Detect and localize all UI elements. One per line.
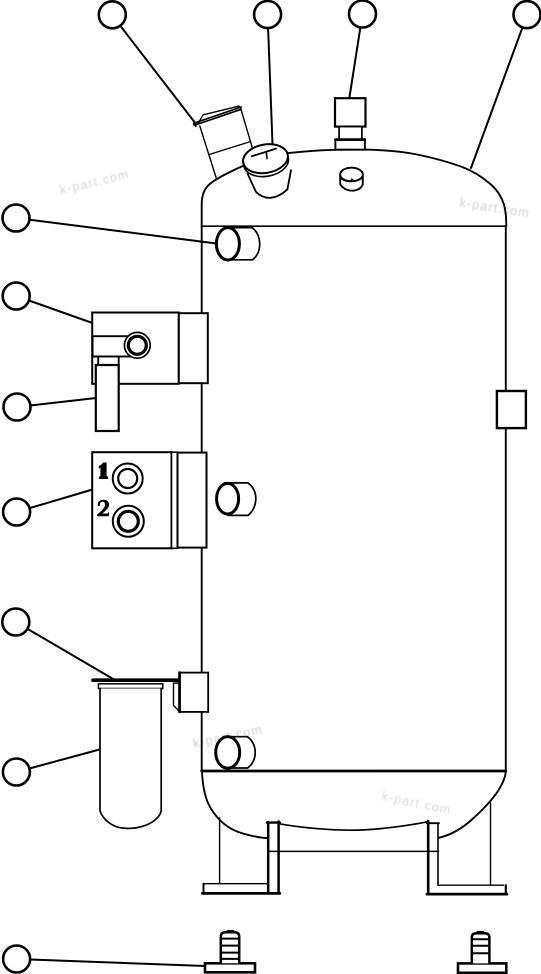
balloon 1: [99, 1, 126, 28]
tank dome outline: [202, 150, 507, 226]
port 2 inner circle: [118, 511, 138, 531]
balloon 6: [3, 283, 30, 310]
valve block 1 ring inner bolt: [128, 336, 146, 354]
right foot bottom bold: [427, 893, 507, 896]
left foot bolt cap bump: [228, 930, 234, 932]
right foot bolt threads: [472, 938, 490, 940]
right foot top: [438, 884, 504, 886]
port 2 outer circle: [113, 506, 144, 537]
right side port box: [497, 391, 526, 428]
valve block 1 main box: [92, 313, 179, 384]
right leg channel left bold: [427, 821, 430, 894]
gauge needle pivot tick: [265, 153, 268, 159]
tank left edge: [201, 226, 203, 771]
balloon 2: [254, 1, 281, 28]
cross bar between legs: [268, 850, 438, 852]
leader 8: [17, 490, 93, 513]
balloon 4: [514, 1, 541, 28]
balloon 7: [4, 394, 31, 421]
gauge needle: [252, 149, 276, 157]
left leg channel cap: [267, 821, 280, 823]
pressure gauge body cylinder: [248, 170, 291, 198]
balloon 3: [349, 1, 376, 28]
valve block 1 mount plate: [179, 313, 208, 383]
valve block 1 collar: [98, 357, 119, 366]
right leg channel cap: [427, 822, 439, 824]
air filter rim lower line: [195, 109, 240, 125]
bottom dome right silhouette: [439, 772, 506, 838]
leader 5: [16, 218, 217, 244]
right foot right edge: [505, 885, 507, 894]
valve block 1 drain pipe: [96, 365, 119, 431]
air filter tilted body left edge: [200, 126, 217, 179]
pressure switch top box: [335, 98, 366, 126]
balloon 11: [3, 946, 30, 973]
bottom dome left silhouette: [202, 772, 268, 838]
pressure switch base slab: [335, 139, 365, 149]
leader 6: [16, 296, 92, 323]
left leg channel right bold: [277, 822, 280, 894]
left foot bolt base: [205, 963, 255, 972]
label 1: [99, 463, 108, 480]
balloon 8: [3, 499, 30, 526]
valve block 1 elbow pipe: [93, 336, 132, 356]
left foot top: [204, 883, 267, 885]
valve block 2 mount plate: [178, 453, 207, 548]
leader 10: [16, 750, 99, 773]
leader 4: [471, 15, 527, 168]
air filter mid band: [209, 142, 251, 155]
pressure gauge face: [241, 141, 290, 177]
separator filter mounting bar: [93, 678, 179, 682]
bracket tab: [174, 683, 180, 711]
top plug cylinder sides: [340, 175, 363, 191]
bottom seam: [202, 770, 506, 773]
leader 11: [17, 959, 206, 966]
right foot bolt cap bump: [478, 931, 484, 933]
top port nipple cylinder: [228, 228, 260, 260]
left foot bottom bold: [202, 892, 279, 895]
right leg channel right thin: [437, 823, 439, 885]
valve block 1 ring outer: [124, 332, 150, 358]
label 2: [97, 500, 109, 516]
leader 1: [112, 15, 196, 124]
port 1 inner circle: [118, 469, 137, 488]
left foot left edge: [203, 884, 205, 894]
pressure switch base slab bold top: [335, 138, 365, 141]
leader 9: [16, 622, 114, 680]
top port front ellipse: [216, 228, 239, 260]
tank top seam: [202, 225, 507, 227]
tank right edge: [505, 226, 507, 771]
top plug top ellipse: [340, 168, 363, 182]
svg-text:k-part.com: k-part.com: [380, 789, 452, 817]
balloon 5: [3, 205, 30, 232]
svg-text:k-part.com: k-part.com: [58, 167, 130, 197]
mounting bracket bold left edge: [178, 673, 181, 712]
pressure gauge bezel lower ellipse: [241, 144, 290, 180]
separator filter bowl: [100, 689, 161, 829]
port 1 outer circle: [113, 464, 143, 494]
balloon 9: [2, 609, 29, 636]
bottom port front ellipse: [216, 737, 240, 769]
bottom port nipple cylinder: [225, 737, 255, 768]
leader 7: [17, 398, 96, 407]
balloon 10: [3, 759, 30, 786]
left leg channel left bold: [267, 822, 270, 893]
air filter cap top slab: [198, 106, 241, 124]
middle port nipple cylinder: [224, 483, 255, 516]
right leg outer edge: [490, 803, 492, 885]
middle port front ellipse: [217, 483, 239, 514]
separator filter flange: [98, 684, 162, 689]
left foot bolt shank: [221, 932, 239, 963]
right foot bolt shank: [472, 933, 490, 963]
right foot bolt base: [458, 963, 506, 972]
leader 2: [268, 15, 273, 144]
left foot bolt threads: [221, 938, 239, 940]
air filter rim left nub: [194, 122, 196, 127]
bottom dome between legs: [280, 822, 428, 830]
left leg outer edge: [219, 818, 221, 884]
valve block 2 main box: [92, 452, 171, 548]
top plug lip line: [340, 177, 362, 181]
pressure switch mid neck: [339, 127, 362, 140]
air filter rim upper line: [196, 107, 241, 122]
mounting bracket: [179, 673, 208, 712]
leader 3: [350, 14, 363, 97]
air filter body right edge: [241, 109, 255, 156]
svg-text:k-part.com: k-part.com: [459, 196, 531, 221]
valve block 2 divider strip: [172, 452, 178, 548]
